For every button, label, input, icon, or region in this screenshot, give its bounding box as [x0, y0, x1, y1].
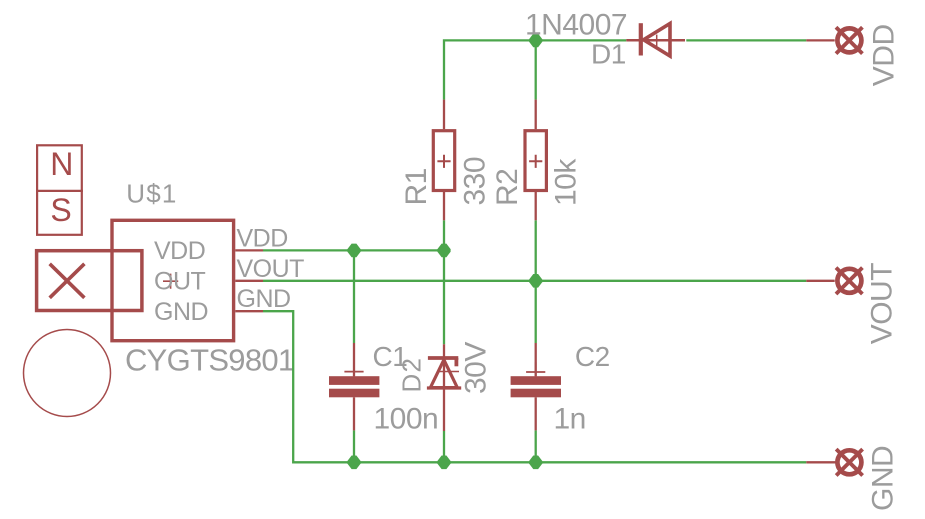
wire GND net from U$1 to GND rail [263, 311, 806, 462]
GND supply terminal pin [806, 461, 835, 463]
svg-text:OUT: OUT [154, 268, 206, 296]
wire VDD net horizontal [263, 249, 444, 251]
VDD supply terminal X [836, 27, 862, 53]
zener D2 cathode bar [428, 356, 458, 360]
magnet N/S divider [36, 190, 83, 192]
capacitor C2 origin cross [526, 362, 545, 376]
svg-text:GND: GND [237, 285, 291, 313]
svg-text:C2: C2 [575, 341, 610, 372]
capacitor C1 top pin [353, 343, 355, 376]
capacitor C1 bottom plate [329, 389, 379, 398]
capacitor C2 top plate [511, 376, 561, 385]
svg-text:D1: D1 [591, 39, 626, 70]
svg-text:VDD: VDD [868, 24, 901, 86]
capacitor C2 bottom plate [511, 389, 561, 398]
svg-text:1n: 1n [554, 403, 586, 436]
pin GND of U$1 [235, 310, 263, 312]
VDD supply terminal pin [806, 39, 834, 41]
wire zener column upper [443, 250, 445, 344]
svg-text:1N4007: 1N4007 [525, 9, 627, 42]
wire VOUT net horizontal [263, 280, 806, 282]
hall sensor U$1 body [112, 220, 234, 340]
svg-text:10k: 10k [550, 158, 583, 206]
magnet circle [24, 330, 111, 417]
zener D2 base bar [427, 386, 461, 389]
VOUT supply terminal pin [806, 280, 834, 282]
svg-text:N: N [50, 146, 73, 182]
svg-text:VOUT: VOUT [237, 255, 305, 283]
wire R1 bottom to VDD net [443, 220, 445, 250]
svg-text:VDD: VDD [237, 224, 288, 252]
svg-text:CYGTS9801: CYGTS9801 [125, 343, 294, 378]
capacitor C1 bottom pin [353, 397, 355, 430]
svg-text:S: S [50, 192, 71, 228]
resistor R2 bottom pin [535, 191, 537, 220]
svg-text:30V: 30V [459, 342, 492, 394]
svg-text:330: 330 [458, 157, 491, 206]
junction VOUT net at R2/C2 column [529, 274, 542, 288]
svg-text:GND: GND [867, 446, 900, 511]
zener D2 pin line (through) [443, 344, 445, 431]
capacitor C2 bottom pin [535, 397, 537, 430]
svg-text:GND: GND [154, 298, 208, 326]
magnet X box [37, 251, 142, 311]
wire R2 top drop [535, 40, 537, 99]
diode D1 pin line (through) [626, 39, 685, 42]
capacitor C1 top plate [329, 376, 379, 385]
GND supply terminal circle [837, 450, 861, 474]
resistor R2 origin cross [529, 155, 542, 168]
svg-text:VDD: VDD [154, 237, 205, 265]
svg-text:R2: R2 [491, 169, 524, 206]
svg-text:100n: 100n [374, 402, 439, 435]
magnet X mark [50, 264, 85, 298]
resistor R1 body [433, 131, 454, 191]
diode D1 cathode bar [639, 23, 643, 55]
wire C1 bottom to GND rail [353, 430, 355, 462]
U$1 origin cross [163, 274, 178, 289]
resistor R1 bottom pin [443, 191, 445, 220]
resistor R2 body [525, 131, 546, 191]
svg-text:R1: R1 [400, 168, 433, 205]
wire C2 bottom to GND rail [535, 430, 537, 462]
VOUT supply terminal circle [837, 269, 861, 293]
wire R2 bottom to VOUT net [535, 220, 537, 280]
VOUT supply terminal X [836, 268, 862, 294]
junction VDD net at R1/zener column [437, 244, 450, 258]
wire top rail diode to VDD terminal [686, 39, 806, 41]
resistor R1 origin cross [437, 155, 450, 168]
junction GND rail at zener [437, 456, 450, 470]
resistor R1 top pin [443, 100, 445, 130]
svg-text:D2: D2 [397, 357, 427, 393]
wire C2 top drop [535, 281, 537, 343]
VDD supply terminal circle [837, 28, 861, 52]
pin VOUT of U$1 [235, 280, 263, 282]
pin VDD of U$1 [235, 249, 263, 251]
zener D2 cathode hook [454, 358, 458, 366]
diode D1 origin cross [656, 35, 658, 47]
capacitor C1 origin cross [344, 362, 363, 376]
wire top rail with corner at R1 column [444, 40, 626, 99]
junction VDD net at C1 [347, 244, 360, 258]
zener D2 origin cross [437, 371, 459, 373]
junction on top rail at R2 [529, 34, 542, 48]
wire C1 top drop [353, 250, 355, 343]
capacitor C2 top pin [535, 343, 537, 376]
svg-text:VOUT: VOUT [866, 263, 899, 345]
resistor R2 top pin [535, 100, 537, 130]
GND supply terminal X [836, 449, 862, 475]
magnet N/S box (part of U$1) [37, 145, 82, 235]
junction GND rail at C1 [347, 456, 360, 470]
svg-text:U$1: U$1 [126, 179, 177, 209]
wire zener bottom to GND rail [443, 431, 445, 462]
diode D1 triangle [644, 24, 671, 57]
junction GND rail at C2 [529, 456, 542, 470]
zener D2 triangle [430, 360, 457, 388]
